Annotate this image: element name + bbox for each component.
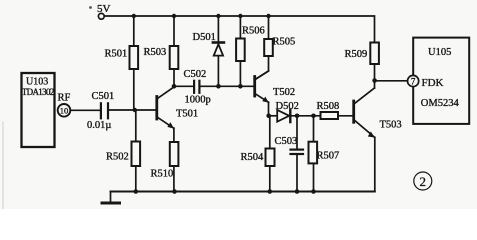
wire R503 column xyxy=(173,16,175,86)
node R506 top xyxy=(238,14,242,18)
wire pin10 to C501 xyxy=(70,109,100,111)
node R501 top xyxy=(132,14,136,18)
wire R501-R502 column xyxy=(134,16,136,192)
resistor R502 xyxy=(132,142,141,167)
node R510 bottom xyxy=(172,189,177,194)
svg-text:RF: RF xyxy=(58,93,71,104)
wire R506 column xyxy=(239,16,241,86)
transistor T503 xyxy=(354,88,375,138)
capacitor C501 xyxy=(101,103,108,118)
node D501 bottom xyxy=(216,84,221,89)
diode D502 xyxy=(277,110,290,123)
resistor R505 xyxy=(264,39,273,56)
svg-text:C501: C501 xyxy=(92,91,115,102)
wire C503 column xyxy=(296,116,298,192)
svg-text:R501: R501 xyxy=(105,49,128,60)
svg-text:R503: R503 xyxy=(144,47,167,58)
resistor R508 xyxy=(321,112,339,119)
diode D501 xyxy=(213,43,224,56)
svg-text:U105: U105 xyxy=(428,47,451,58)
pin 7 of U105 xyxy=(408,75,419,86)
node C503 bottom xyxy=(295,189,300,194)
box U105 xyxy=(413,38,469,124)
node R506 bottom xyxy=(238,84,243,89)
node R505 top xyxy=(266,14,270,18)
svg-text:7: 7 xyxy=(411,76,416,86)
wire T501 emitter to R510 xyxy=(173,128,175,191)
svg-text:R502: R502 xyxy=(106,152,129,163)
node C503 top xyxy=(295,114,300,119)
svg-text:10: 10 xyxy=(60,106,69,116)
resistor R507 xyxy=(309,142,318,164)
node R503/C502/T501 collector xyxy=(172,84,177,89)
svg-text:R508: R508 xyxy=(317,101,340,112)
svg-text:R505: R505 xyxy=(273,37,296,48)
figure number circled 2 xyxy=(414,172,432,190)
wire D501 column xyxy=(217,16,219,86)
resistor R504 xyxy=(266,149,275,167)
svg-text:T502: T502 xyxy=(273,87,295,98)
node R503 top xyxy=(172,14,176,18)
resistor R506 xyxy=(236,39,245,62)
node R507 top xyxy=(311,114,316,119)
resistor R501 xyxy=(130,46,139,69)
node base divider xyxy=(133,108,137,112)
node T502 emitter / R504 xyxy=(266,114,271,119)
wire bottom ground rail xyxy=(111,191,375,193)
svg-text:TDA1302: TDA1302 xyxy=(22,87,55,97)
wire top +5V rail xyxy=(104,16,374,43)
node D501 top xyxy=(216,14,220,18)
capacitor C502 xyxy=(194,81,199,93)
svg-text:R510: R510 xyxy=(151,169,174,180)
wire emitter node to D502 xyxy=(269,115,277,117)
resistor R509 xyxy=(370,43,379,65)
transistor T501 xyxy=(157,87,174,129)
svg-text:1000p: 1000p xyxy=(185,95,211,106)
wire node to pin7 xyxy=(375,80,408,82)
pin 10 of U103 xyxy=(58,104,71,117)
wire R507 column xyxy=(313,116,315,192)
svg-text:R506: R506 xyxy=(242,26,265,37)
wire T502 emitter down xyxy=(268,102,270,116)
svg-text:0.01µ: 0.01µ xyxy=(87,120,111,131)
wire R505 column xyxy=(256,16,268,79)
box U103 TDA1302 xyxy=(22,73,55,147)
transistor T502 xyxy=(255,71,269,103)
capacitor C503 xyxy=(291,150,304,154)
svg-text:R504: R504 xyxy=(241,152,265,163)
svg-text:C502: C502 xyxy=(184,69,207,80)
svg-text:2: 2 xyxy=(420,174,427,189)
svg-text:R507: R507 xyxy=(317,150,340,161)
wire R509 to collector node xyxy=(374,64,376,88)
wire T503 emitter down to rail xyxy=(374,137,376,191)
wire C501 to T501 base xyxy=(109,109,155,111)
terminal +5V xyxy=(89,6,104,19)
wire R508 to T503 base xyxy=(338,115,352,117)
resistor R510 xyxy=(170,142,179,166)
svg-text:D501: D501 xyxy=(193,32,216,43)
svg-text:U103: U103 xyxy=(26,77,48,88)
svg-text:C503: C503 xyxy=(275,136,298,147)
resistor R503 xyxy=(170,46,179,69)
wire C502 to T502 base xyxy=(201,85,254,87)
wire R504 column xyxy=(269,116,271,192)
svg-text:5V: 5V xyxy=(97,3,111,15)
svg-text:FDK: FDK xyxy=(422,77,444,89)
svg-text:D502: D502 xyxy=(276,101,299,112)
node R509 bottom xyxy=(372,78,377,83)
svg-text:T503: T503 xyxy=(380,120,402,131)
node R502 bottom xyxy=(134,189,139,194)
ground xyxy=(102,192,120,204)
node R507 bottom xyxy=(311,189,316,194)
svg-text:R509: R509 xyxy=(345,49,368,60)
wire collector node to C502 xyxy=(174,85,193,87)
wire D502 to R508 xyxy=(291,115,320,117)
node R504 bottom xyxy=(268,189,273,194)
svg-text:OM5234: OM5234 xyxy=(421,98,460,109)
svg-text:T501: T501 xyxy=(176,109,198,120)
